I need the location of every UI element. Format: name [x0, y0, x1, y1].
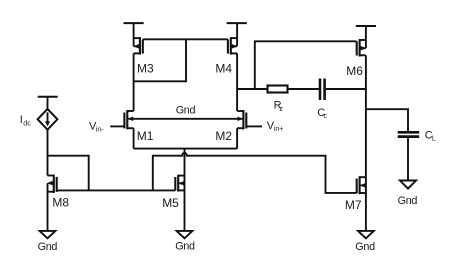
- wire Rz to Cc: [288, 88, 320, 90]
- power rail VDD above Idc: [38, 96, 58, 98]
- svg-text:Gnd: Gnd: [38, 241, 58, 253]
- ground below M7: [355, 231, 375, 253]
- svg-text:M8: M8: [52, 196, 69, 210]
- capacitor Cc: [317, 79, 327, 120]
- ground below CL: [398, 181, 418, 207]
- wire tail: [134, 148, 238, 150]
- svg-text:in+: in+: [274, 126, 284, 133]
- transistor M1: [110, 110, 154, 143]
- wire tail to M5 drain: [184, 149, 186, 176]
- wire output node (M6 drain to M7 drain): [365, 55, 367, 177]
- wire M3 drain to M1 drain: [133, 53, 135, 111]
- power rail VDD above M3: [124, 22, 144, 24]
- power rail VDD above M6: [356, 25, 376, 27]
- svg-text:Gnd: Gnd: [176, 105, 196, 117]
- wire M8 source to ground: [47, 192, 49, 232]
- svg-text:M4: M4: [215, 62, 232, 76]
- svg-text:Gnd: Gnd: [355, 241, 375, 253]
- wire bias from Idc node down-tap: [48, 156, 89, 191]
- svg-text:M5: M5: [162, 196, 179, 210]
- capacitor CL: [398, 129, 436, 142]
- node Vin+: [267, 120, 284, 133]
- current source Idc: [20, 97, 58, 130]
- wire node to Rz: [237, 88, 267, 90]
- wire M4 drain to M2 drain: [236, 53, 238, 111]
- wire CL to ground: [407, 137, 409, 181]
- transistor M4: [215, 23, 237, 76]
- power rail VDD above M4: [227, 22, 247, 24]
- svg-text:M2: M2: [215, 129, 232, 143]
- wire M5 source to ground: [184, 190, 186, 231]
- wire bias riser to M7 gate (hop over M5 drain): [153, 153, 357, 193]
- wire M7 source to ground: [365, 193, 367, 231]
- wire M2 source to tail: [236, 128, 238, 148]
- svg-text:Gnd: Gnd: [175, 241, 195, 253]
- wire Idc to M8 drain: [47, 130, 49, 176]
- svg-text:z: z: [279, 106, 283, 113]
- svg-text:c: c: [324, 113, 328, 120]
- node Vin-: [89, 120, 104, 133]
- svg-text:dc: dc: [23, 121, 31, 128]
- transistor M5: [162, 175, 184, 210]
- svg-text:in-: in-: [96, 126, 104, 133]
- transistor M6: [346, 26, 366, 78]
- transistor M8: [48, 175, 70, 210]
- svg-text:M6: M6: [346, 64, 363, 78]
- wire M8 gate to M5 gate: [57, 189, 176, 191]
- resistor Rz: [268, 86, 288, 114]
- svg-text:M1: M1: [137, 129, 154, 143]
- transistor M2: [215, 110, 262, 143]
- wire Cc to output node: [326, 88, 366, 90]
- wire output to CL: [366, 109, 408, 132]
- transistor M7: [345, 176, 366, 212]
- wire bulk net Gnd with arrows into M1/M2 channels: [128, 105, 243, 122]
- svg-text:Gnd: Gnd: [398, 195, 418, 207]
- wire M6 gate tap: [255, 41, 357, 89]
- wire M3 diode connection: [134, 39, 186, 81]
- ground below M5: [175, 231, 195, 253]
- ground below M8: [38, 231, 58, 253]
- svg-text:M7: M7: [345, 198, 362, 212]
- svg-text:L: L: [432, 135, 436, 142]
- transistor M3: [134, 23, 154, 76]
- wire M1 source to tail: [133, 128, 135, 148]
- wire M3 gate to M4 gate: [143, 38, 228, 40]
- svg-text:M3: M3: [137, 62, 154, 76]
